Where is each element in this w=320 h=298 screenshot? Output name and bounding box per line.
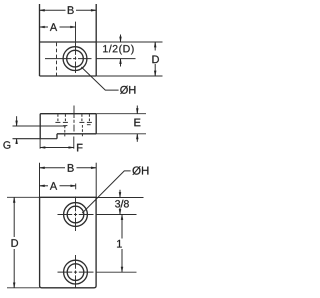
wire: D bottom extension left	[7, 287, 40, 289]
wire: hidden shoulder tick right lower	[87, 124, 91, 126]
wire: E extension top	[96, 113, 146, 115]
label B top	[68, 6, 74, 14]
label OH top	[120, 86, 135, 94]
hole H3 counterbore circle	[64, 260, 88, 284]
wire: hidden bore edge right	[81, 125, 83, 136]
label D right	[152, 56, 159, 64]
dimension 3/8 lower arrow	[119, 208, 121, 215]
dimension B right arrow	[76, 9, 96, 11]
dimension A bottom left arrow	[40, 185, 49, 187]
dimension A bottom right arrow	[60, 185, 76, 187]
wire: E extension bottom	[96, 133, 146, 135]
label F	[77, 144, 82, 152]
dimension G lower arrow	[16, 139, 18, 144]
dimension 1/2(D) upper arrow	[120, 35, 122, 43]
wire: internal step line + G extension	[13, 125, 67, 127]
wire: side view bottom edge left + G extension	[13, 138, 58, 140]
hole H2 counterbore circle	[64, 203, 88, 227]
hole H3 bore circle	[67, 264, 84, 281]
wire: side view step edge	[56, 134, 58, 139]
hole H1 counterbore circle	[63, 47, 87, 71]
dimension 3/8 upper arrow	[119, 190, 121, 198]
dimension B bottom right arrow	[77, 167, 97, 169]
wire: side view top edge	[40, 113, 96, 115]
wire: top view left edge + B/A extension	[39, 4, 41, 76]
wire: H3 vertical centerline	[75, 255, 77, 288]
dimension F	[40, 147, 74, 149]
label A bottom	[50, 182, 57, 190]
wire: hidden hole edge	[57, 114, 59, 122]
wire: front top edge extension right	[96, 197, 143, 199]
wire: side view vertical centerline	[73, 106, 75, 132]
dimension G upper arrow	[16, 116, 18, 126]
label 1/2(D)	[103, 45, 133, 55]
wire: H2 centerline extension right	[96, 214, 136, 216]
wire: H1 centerline extension right	[96, 58, 135, 60]
wire: side view bottom edge right	[57, 133, 96, 135]
dimension D left upper arrow	[13, 197, 15, 237]
label B bottom	[68, 164, 74, 172]
wire: hidden shoulder tick	[55, 121, 60, 123]
dimension A right arrow	[60, 26, 76, 28]
dimension 1/2(D) lower arrow	[120, 59, 122, 67]
label G	[3, 141, 10, 148]
dimension 1 lower arrow	[121, 249, 123, 272]
wire: top edge extension right	[96, 41, 162, 43]
wire: hidden hole edge	[64, 114, 66, 122]
wire: top view bottom edge	[40, 75, 97, 77]
wire: hidden shoulder tick	[87, 121, 92, 123]
wire: hidden bore edge left	[64, 126, 66, 137]
wire: top view top edge	[40, 41, 97, 43]
label A top	[50, 23, 57, 31]
wire: H3 centerline extension right	[96, 271, 136, 273]
hole H2 bore circle	[67, 206, 84, 223]
label OH bottom	[133, 166, 149, 175]
wire: A bottom right extension	[75, 184, 77, 190]
wire: hidden hole edge	[81, 114, 83, 122]
label D left	[12, 239, 19, 247]
wire: hidden hole edge	[88, 114, 90, 122]
label E	[134, 119, 140, 127]
wire: H1 vertical centerline / A extension	[75, 22, 77, 73]
wire: side view right edge	[95, 114, 97, 134]
wire: top view right edge + B extension	[95, 4, 97, 76]
dimension B left arrow	[40, 9, 66, 11]
wire: H1 horizontal centerline	[45, 58, 92, 60]
dimension 1 upper arrow	[121, 215, 123, 239]
wire: F extension right centerline	[73, 137, 75, 149]
wire: hidden shoulder tick	[63, 121, 68, 123]
wire: hidden shoulder tick left lower	[63, 125, 67, 127]
wire: F extension left	[39, 139, 41, 149]
wire: front view left B/A extension	[39, 163, 41, 198]
wire: front view right B extension	[95, 163, 97, 198]
wire: H2 horizontal centerline	[58, 214, 94, 216]
wire: H3 horizontal centerline	[58, 271, 94, 273]
label 3/8	[115, 200, 129, 208]
dimension D left lower arrow	[13, 249, 15, 288]
dimension A left arrow	[40, 26, 49, 28]
front view plate outline	[40, 197, 97, 287]
dimension B bottom left arrow	[40, 167, 66, 169]
wire: H2 vertical centerline	[75, 197, 77, 232]
wire: D top extension left	[7, 196, 40, 198]
wire: hidden shoulder tick	[79, 121, 84, 123]
dimension E lower arrow	[136, 134, 138, 142]
dimension D right upper arrow	[154, 42, 156, 51]
wire: hidden step edge	[56, 43, 58, 76]
wire: side view left edge	[39, 114, 41, 139]
leader for hole label OH top	[81, 67, 118, 90]
dimension D right lower arrow	[154, 64, 156, 76]
hole H1 bore circle	[67, 50, 84, 67]
dimension E upper arrow	[136, 106, 138, 114]
label 1	[117, 240, 122, 248]
leader for hole label OH bottom	[82, 171, 130, 213]
wire: bottom edge extension right	[96, 75, 162, 77]
